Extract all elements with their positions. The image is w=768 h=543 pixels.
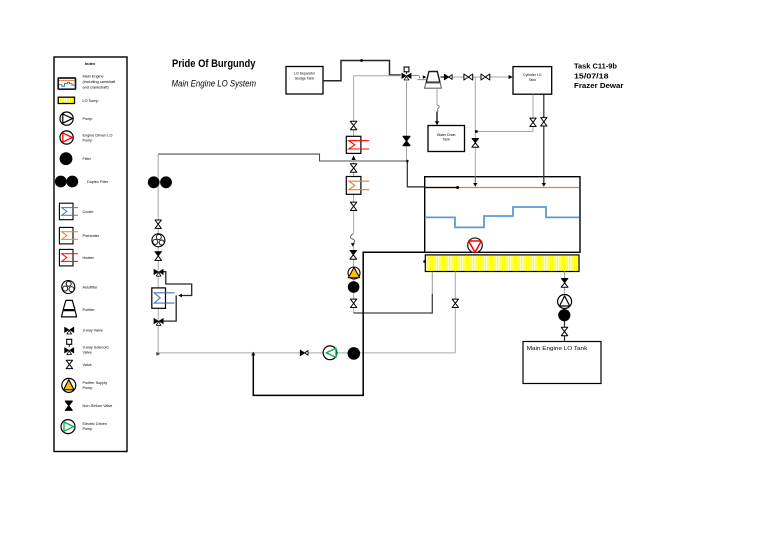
valve V4 preheater bottom xyxy=(350,202,356,210)
non-return valve purifier suction xyxy=(350,250,357,259)
wire sludge tank to solenoid xyxy=(323,61,401,81)
svg-text:Autofilter: Autofilter xyxy=(83,286,99,290)
wire sump to tank branch xyxy=(564,272,566,309)
valve cylinder tank drain xyxy=(530,118,536,126)
wire purifier branch vertical xyxy=(353,161,355,233)
arrow into water drain tank xyxy=(435,121,439,125)
pump tank branch xyxy=(558,295,572,309)
electric driven pump bottom line xyxy=(323,346,337,360)
water drain tank box xyxy=(428,126,465,152)
svg-text:and crankshaft): and crankshaft) xyxy=(83,86,110,90)
non-return valve left branch xyxy=(155,252,162,261)
legend electric driven pump symbol xyxy=(61,420,75,434)
legend cooler symbol xyxy=(59,203,77,220)
arrow bypass left xyxy=(178,294,182,298)
svg-text:(including camshaft: (including camshaft xyxy=(83,80,117,84)
wire engine feed drop xyxy=(407,161,424,187)
3-way valve below cooler xyxy=(154,318,163,325)
engine driven LO pump xyxy=(468,238,483,253)
preheater xyxy=(346,177,369,195)
non-return valve tank branch xyxy=(561,278,568,287)
purifier supply pump xyxy=(348,267,360,279)
break symbol purifier suction xyxy=(351,234,355,245)
arrow heater bottom up xyxy=(352,155,356,160)
filter tank branch xyxy=(558,309,570,321)
camshaft feed black overlay line xyxy=(425,186,459,189)
main engine LO tank box xyxy=(523,342,601,384)
legend box xyxy=(54,57,127,452)
wire bottom horizontal xyxy=(158,352,455,354)
svg-text:Purifier: Purifier xyxy=(83,308,96,312)
cooler xyxy=(152,288,175,308)
valve V1 left branch xyxy=(155,220,161,228)
wire main supply line xyxy=(158,154,407,161)
valve sump suction xyxy=(452,299,458,307)
legend autofilter symbol xyxy=(62,281,75,294)
purifier xyxy=(425,72,442,89)
valve tank branch xyxy=(561,327,567,335)
node sludge wire dot xyxy=(360,59,363,62)
wire sump suction right xyxy=(454,272,456,353)
main engine box xyxy=(425,177,580,253)
arrow into purifier left xyxy=(423,75,427,79)
svg-text:Pump: Pump xyxy=(83,117,93,121)
svg-text:Preheater: Preheater xyxy=(83,234,100,238)
LO sump xyxy=(425,255,579,272)
legend main engine symbol xyxy=(58,78,75,89)
svg-text:Main Engine LO Tank: Main Engine LO Tank xyxy=(527,346,588,352)
3-way solenoid valve xyxy=(404,67,409,74)
filter purifier suction xyxy=(348,281,360,293)
wire purifier outlet top line xyxy=(441,76,512,78)
wire purifier return to sump xyxy=(354,294,433,313)
wire heater top to solenoid xyxy=(354,76,401,137)
svg-text:Sludge Tank: Sludge Tank xyxy=(295,76,314,80)
valve cylinder tank feed xyxy=(541,118,547,126)
svg-text:Duplex Filter: Duplex Filter xyxy=(87,180,109,184)
legend filter symbol xyxy=(60,152,73,165)
svg-text:Cylinder LO: Cylinder LO xyxy=(523,73,542,77)
valve V5 purifier suction xyxy=(350,299,356,307)
svg-text:Valve: Valve xyxy=(83,363,92,367)
legend pump symbol xyxy=(60,112,73,125)
non-return valve solenoid drop xyxy=(403,136,410,145)
legend duplex filter symbol xyxy=(55,176,78,188)
svg-text:LO Separator: LO Separator xyxy=(294,72,316,76)
arrow into cylinder LO tank xyxy=(509,75,513,79)
svg-text:Purifier Supply: Purifier Supply xyxy=(83,381,108,385)
LO separator sludge tank box xyxy=(286,67,323,95)
break symbol purifier drain xyxy=(437,105,439,112)
svg-text:Electric Driven: Electric Driven xyxy=(83,422,107,426)
wire left branch vertical xyxy=(157,154,159,353)
duplex filter xyxy=(148,176,172,188)
wire return thick path xyxy=(253,252,425,395)
wire into engine arrow left xyxy=(474,177,476,184)
camshaft orange line xyxy=(425,187,579,189)
wire solenoid drop xyxy=(406,82,408,161)
wire cooler bypass upper xyxy=(164,272,192,296)
cylinder LO tank box xyxy=(513,67,552,95)
svg-text:Tank: Tank xyxy=(529,78,537,82)
wire purifier outlet dark stub xyxy=(441,76,453,78)
svg-text:Pump: Pump xyxy=(83,386,93,390)
crankshaft blue line xyxy=(426,207,579,227)
svg-text:Frazer Dewar: Frazer Dewar xyxy=(574,81,624,90)
valve V3 preheater top xyxy=(350,164,356,172)
svg-text:3-way Valve: 3-way Valve xyxy=(83,328,103,332)
valve top line B xyxy=(481,74,490,80)
3-way valve above cooler xyxy=(154,269,163,276)
svg-text:Main Engine LO System: Main Engine LO System xyxy=(172,78,257,88)
svg-text:Non-Return Valve: Non-Return Valve xyxy=(83,404,113,408)
wire purifier to water drain tank xyxy=(436,89,438,106)
legend LO sump symbol xyxy=(58,97,74,103)
non-return valve cylinder feed xyxy=(472,138,479,147)
arrow engine feed into camshaft xyxy=(473,183,477,187)
svg-text:Filter: Filter xyxy=(83,157,92,161)
wire cylinder tank feed drop xyxy=(474,77,476,177)
svg-text:Engine Driven LO: Engine Driven LO xyxy=(83,133,113,137)
filter bottom line xyxy=(348,347,361,360)
svg-text:Task C11-9b: Task C11-9b xyxy=(574,62,617,71)
check valve purifier outlet xyxy=(444,74,452,80)
svg-text:Water Drain: Water Drain xyxy=(437,133,456,137)
svg-text:Valve: Valve xyxy=(83,350,92,354)
wire cylinder tank drain left xyxy=(532,95,534,132)
legend preheater symbol xyxy=(59,227,77,244)
break symbol solenoid-purifier hook xyxy=(412,76,426,80)
wire cylinder tank crossover xyxy=(475,131,533,133)
valve V2 heater inlet xyxy=(350,121,356,129)
legend 3-way valve symbol xyxy=(65,327,74,334)
arrow cylinder feed into camshaft xyxy=(542,183,546,187)
wire cooler bypass lower xyxy=(164,296,177,322)
svg-text:Pump: Pump xyxy=(83,427,93,431)
arrow return path up xyxy=(251,352,255,356)
wire cylinder tank to engine xyxy=(543,95,545,185)
svg-text:Pump: Pump xyxy=(83,138,93,142)
legend 3-way solenoid valve symbol xyxy=(67,339,72,347)
legend engine driven LO pump symbol xyxy=(60,131,73,144)
svg-text:Pride Of Burgundy: Pride Of Burgundy xyxy=(172,58,256,70)
svg-text:Index: Index xyxy=(85,61,96,66)
svg-text:Tank: Tank xyxy=(442,138,450,142)
check valve bottom line xyxy=(300,350,308,356)
svg-text:Cooler: Cooler xyxy=(83,210,95,214)
legend purifier symbol xyxy=(62,300,77,317)
valve top line A xyxy=(464,74,473,80)
svg-text:3-way Solenoid: 3-way Solenoid xyxy=(83,345,109,349)
legend valve symbol xyxy=(66,360,72,368)
legend purifier supply pump symbol xyxy=(62,378,76,392)
svg-text:15/07/18: 15/07/18 xyxy=(574,71,609,80)
svg-text:Heater: Heater xyxy=(83,256,95,260)
node crossover junction xyxy=(475,130,478,133)
legend heater symbol xyxy=(59,249,77,266)
heater xyxy=(346,136,369,153)
legend non-return valve symbol xyxy=(65,401,72,410)
svg-text:Main Engine: Main Engine xyxy=(83,75,104,79)
svg-text:LO Sump: LO Sump xyxy=(83,99,99,103)
node main line junction xyxy=(406,160,409,163)
node sump left dot xyxy=(423,260,426,263)
arrow break bottom xyxy=(351,243,355,246)
arrow bottom line left end xyxy=(156,352,160,356)
autofilter xyxy=(152,234,165,247)
